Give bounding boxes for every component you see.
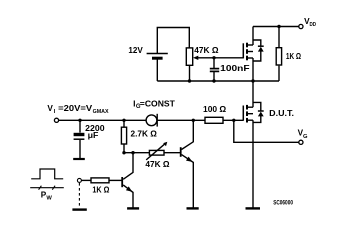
mosfet M1 drain lead to VDD rail (252, 27, 254, 46)
svg-text:V: V (47, 104, 53, 113)
battery B1 bottom lead (156, 60, 158, 82)
main gate drive wire VI to current source (59, 119, 146, 121)
capacitor C1 100nF (210, 58, 219, 81)
potentiometer 47K (top) wiper arrow (193, 56, 243, 60)
ground under DUT (246, 207, 261, 209)
svg-text:DD: DD (310, 22, 317, 28)
label VG (298, 129, 308, 140)
svg-text:=20V=V: =20V=V (58, 104, 93, 113)
ground under C2 (73, 158, 85, 160)
svg-text:I: I (54, 109, 56, 115)
svg-text:100nF: 100nF (220, 63, 249, 73)
transistor Q1 base bar (121, 177, 123, 187)
svg-text:GMAX: GMAX (93, 109, 109, 115)
wire pulse terminal to 1K (82, 179, 92, 181)
capacitor C2 2200uF bottom lead (79, 140, 81, 158)
resistor R3 2.7K top lead (123, 120, 125, 127)
resistor R2 1K bottom lead (278, 66, 280, 81)
ground under Q2 (187, 207, 199, 209)
ground under dashed wire (72, 208, 86, 210)
pulse waveform symbol (31, 169, 63, 179)
resistor R4 100ohm body (205, 117, 223, 123)
potentiometer 47K (mid) body (149, 150, 164, 155)
battery B1 plates (147, 54, 168, 59)
current source IG bar (156, 114, 158, 127)
mosfet DUT source lead to ground (252, 120, 254, 207)
resistor R2 1K body (276, 48, 281, 65)
svg-text:μF: μF (88, 130, 99, 140)
label VDD (304, 17, 316, 28)
mosfet M1 stubs (247, 45, 253, 58)
terminal VI circle (54, 118, 58, 122)
transistor Q2 base bar (180, 147, 182, 157)
svg-text:SC06000: SC06000 (273, 200, 293, 206)
terminal pulse input circle (77, 178, 81, 182)
wire bus to DUT drain (252, 81, 254, 107)
transistor Q2 collector (182, 120, 194, 149)
potentiometer 47K (top) body (186, 48, 192, 65)
transistor Q1 emitter arrow (126, 186, 132, 191)
potentiometer 47K (mid) arrow (146, 142, 167, 160)
wire pot 47K to Q2 base (164, 152, 181, 154)
VDD rail wire (253, 26, 299, 28)
transistor Q1 collector (123, 153, 133, 180)
mosfet DUT channel segments (246, 105, 248, 123)
bottom bus wire (battery to 1K) (157, 80, 279, 82)
terminal VDD circle (299, 24, 303, 28)
transistor Q1 emitter (123, 185, 133, 208)
svg-text:1K Ω: 1K Ω (286, 51, 301, 61)
terminal VG circle (299, 140, 303, 144)
svg-text:47K Ω: 47K Ω (145, 159, 169, 169)
label IG=CONST (133, 98, 176, 110)
resistor R3 2.7K body (121, 127, 126, 144)
mosfet M1 source lead (252, 58, 254, 81)
mosfet DUT stubs (247, 107, 253, 120)
capacitor C2 2200uF plates (74, 133, 85, 139)
VG tap wire (234, 120, 299, 142)
capacitor C2 2200uF leads (79, 120, 81, 132)
svg-text:1K Ω: 1K Ω (92, 184, 109, 194)
mosfet M1 body diode (253, 40, 264, 61)
battery B1 12V loop top wire (157, 28, 189, 54)
svg-text:47K Ω: 47K Ω (194, 46, 219, 55)
resistor R3 2.7K bottom lead (123, 144, 125, 153)
svg-text:D.U.T.: D.U.T. (269, 108, 294, 118)
svg-text:=CONST: =CONST (140, 98, 176, 108)
mosfet M1 channel segments (246, 43, 248, 61)
svg-text:W: W (46, 196, 52, 202)
transistor Q2 emitter arrow (186, 157, 192, 162)
pulse width measure line (30, 186, 64, 190)
transistor Q2 emitter (182, 155, 194, 208)
svg-text:G: G (303, 134, 308, 140)
mid node wire 2.7K to pot 47K (124, 152, 149, 154)
resistor R5 1K body (91, 178, 109, 183)
label VI=20V=VGMAX (47, 104, 108, 115)
mosfet DUT gate bar (242, 106, 244, 121)
label PW (41, 191, 53, 202)
current source IG circle (146, 115, 157, 126)
mosfet M1 gate bar (242, 43, 244, 58)
svg-text:12V: 12V (128, 45, 143, 55)
potentiometer 47K (top) bottom lead (189, 66, 191, 82)
mosfet DUT body diode (253, 102, 264, 122)
svg-text:100 Ω: 100 Ω (203, 104, 226, 114)
resistor R2 1K (right) top lead (278, 27, 280, 49)
dashed wire pulse to ground (78, 183, 80, 208)
ground under Q1 (127, 207, 139, 209)
label 2200 uF (85, 123, 105, 140)
wire 1K to Q1 base (109, 179, 122, 181)
wire 100ohm to DUT gate (223, 119, 243, 121)
wire current source to 100ohm (157, 119, 205, 121)
svg-text:2.7K Ω: 2.7K Ω (131, 129, 157, 139)
